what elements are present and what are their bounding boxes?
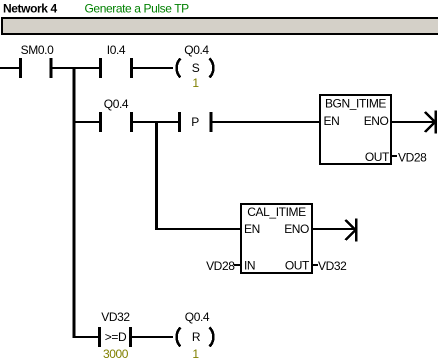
contact P (positive edge) — [178, 112, 213, 132]
svg-text:Q0.4: Q0.4 — [104, 97, 129, 111]
coil R Q0.4 reset, value 1 — [177, 310, 214, 361]
svg-text:3000: 3000 — [103, 347, 129, 361]
network separator bar — [1, 17, 438, 35]
wire: P to box BGN_ITIME — [212, 121, 321, 123]
svg-text:EN: EN — [324, 114, 340, 128]
svg-text:I0.4: I0.4 — [107, 43, 126, 57]
vertical junction wire: rung2 down to rung3 — [155, 121, 158, 230]
contact compare VD32 >=D, value 3000 — [98, 310, 132, 361]
svg-text:Generate a Pulse TP: Generate a Pulse TP — [85, 2, 190, 16]
svg-text:EN: EN — [244, 222, 260, 236]
box BGN_ITIME — [320, 95, 391, 164]
svg-text:1: 1 — [192, 347, 199, 361]
contact I0.4 — [99, 43, 133, 78]
svg-text:VD32: VD32 — [101, 310, 130, 324]
arrow: rung continuation after BGN_ITIME — [425, 111, 437, 134]
box CAL_ITIME — [241, 204, 312, 273]
svg-text:S: S — [192, 61, 200, 75]
vertical rail wire: rung1 junction down to rung4 — [73, 67, 76, 338]
svg-text:OUT: OUT — [285, 259, 310, 273]
svg-text:IN: IN — [244, 259, 255, 273]
svg-text:ENO: ENO — [284, 222, 309, 236]
wire: ENO out of CAL_ITIME — [312, 228, 355, 230]
wire: OUT pin dash of BGN_ITIME — [391, 155, 397, 157]
svg-text:BGN_ITIME: BGN_ITIME — [325, 97, 386, 111]
wire: rail corner to compare contact (rung 4) — [74, 336, 98, 338]
wire: compare contact to coil R — [132, 336, 173, 338]
svg-text:1: 1 — [192, 76, 199, 90]
wire: I0.4 to coil S — [133, 67, 173, 69]
wire: OUT pin dash of CAL_ITIME — [312, 264, 318, 266]
svg-text:Network 4: Network 4 — [3, 2, 57, 16]
wire: Q0.4 to contact P — [133, 121, 178, 123]
svg-text:SM0.0: SM0.0 — [21, 43, 54, 57]
svg-text:VD28: VD28 — [398, 151, 427, 165]
contact Q0.4 — [99, 97, 133, 132]
wire: IN pin dash of CAL_ITIME — [234, 264, 241, 266]
wire: left rail to contact SM0.0 — [0, 67, 19, 69]
svg-text:Q0.4: Q0.4 — [184, 43, 209, 57]
arrow: rung continuation after CAL_ITIME — [346, 219, 358, 242]
svg-text:Q0.4: Q0.4 — [185, 310, 210, 324]
contact SM0.0 — [19, 43, 54, 78]
svg-text:ENO: ENO — [364, 114, 389, 128]
svg-text:P: P — [191, 115, 199, 129]
svg-text:VD32: VD32 — [318, 259, 347, 273]
wire: SM0.0 to I0.4 — [52, 67, 99, 69]
svg-text:CAL_ITIME: CAL_ITIME — [247, 205, 306, 219]
wire: rail to contact Q0.4 (rung 2) — [74, 121, 99, 123]
coil S Q0.4 set, value 1 — [177, 43, 214, 90]
svg-text:>=D: >=D — [105, 330, 127, 344]
svg-text:VD28: VD28 — [206, 259, 235, 273]
wire: ENO out of BGN_ITIME — [391, 121, 435, 123]
wire: rung3 junction to box CAL_ITIME — [155, 228, 241, 230]
svg-text:R: R — [192, 330, 201, 344]
svg-text:OUT: OUT — [365, 150, 390, 164]
